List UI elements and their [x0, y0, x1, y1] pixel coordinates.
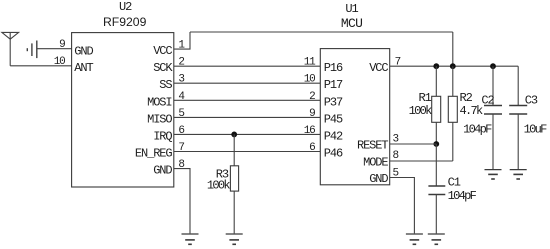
svg-text:10uF: 10uF	[524, 123, 548, 137]
svg-text:P37: P37	[324, 95, 343, 109]
wire U2 GND pin8 to ground	[174, 169, 190, 234]
wire top rail VCC to MCU area	[190, 31, 453, 33]
svg-text:U2: U2	[119, 0, 132, 14]
svg-text:U1: U1	[345, 2, 358, 16]
node junction VCC/C2	[490, 63, 496, 69]
antenna	[2, 32, 19, 65]
svg-text:RESET: RESET	[357, 139, 388, 153]
wire antenna to U2 ANT pin 10	[10, 65, 71, 67]
svg-text:7: 7	[178, 142, 184, 154]
node junction VCC/R1	[433, 63, 439, 69]
svg-text:10: 10	[304, 74, 315, 86]
svg-text:MODE: MODE	[363, 156, 388, 170]
node junction on IRQ line	[231, 132, 237, 138]
svg-text:11: 11	[304, 57, 316, 69]
svg-text:100k: 100k	[409, 104, 433, 118]
node junction RESET/R1/C1	[433, 141, 439, 147]
svg-text:ANT: ANT	[74, 61, 93, 75]
wire VCC net from U1 pin 7	[390, 65, 519, 67]
svg-text:MISO: MISO	[147, 112, 172, 126]
wire MODE pin8 to R2	[390, 160, 453, 162]
svg-text:9: 9	[309, 108, 315, 120]
svg-text:IRQ: IRQ	[153, 129, 172, 143]
svg-text:EN_REG: EN_REG	[135, 147, 173, 161]
wire C3 to ground	[517, 114, 519, 169]
svg-text:R1: R1	[418, 91, 431, 105]
capacitor C2	[484, 106, 502, 115]
IC U2 box	[72, 33, 174, 187]
wire EN_REG to P46	[174, 151, 320, 153]
svg-text:C1: C1	[448, 176, 461, 190]
svg-text:SCK: SCK	[153, 61, 173, 75]
svg-text:MCU: MCU	[341, 16, 362, 31]
svg-text:C2: C2	[481, 94, 494, 108]
wire cell to U2 GND pin 9	[37, 48, 72, 50]
svg-text:SS: SS	[159, 78, 172, 92]
svg-text:104pF: 104pF	[448, 189, 477, 203]
svg-text:P16: P16	[324, 61, 343, 75]
wire U2 VCC pin1 stub up to top rail	[174, 32, 190, 49]
ground under C3	[510, 170, 527, 179]
ground under U1 pin5	[406, 234, 423, 244]
svg-text:P42: P42	[324, 129, 343, 143]
svg-text:16: 16	[304, 125, 315, 137]
svg-text:8: 8	[178, 159, 184, 171]
svg-text:6: 6	[309, 142, 315, 154]
resistor R2	[448, 96, 457, 122]
ground under R3	[226, 234, 243, 244]
wire R1 to RESET node	[435, 122, 437, 144]
resistor R3	[230, 166, 238, 191]
wire VCC down to C2	[492, 66, 494, 105]
svg-text:GND: GND	[369, 172, 388, 186]
IC U1 box	[320, 49, 389, 185]
wire rail down to VCC net	[452, 32, 454, 66]
svg-text:R2: R2	[460, 91, 473, 105]
svg-text:6: 6	[178, 125, 184, 137]
svg-text:8: 8	[393, 150, 399, 162]
ground under C2	[485, 170, 502, 179]
capacitor/cell symbol at U2 GND pin 9	[27, 41, 37, 59]
wire VCC down to R1	[435, 66, 437, 96]
wire junction down to R3	[233, 134, 235, 165]
wire GND pin5 of U1 to ground	[390, 178, 415, 234]
svg-text:104pF: 104pF	[463, 123, 492, 137]
svg-text:VCC: VCC	[153, 44, 172, 58]
svg-text:VCC: VCC	[369, 61, 388, 75]
svg-text:5: 5	[178, 108, 184, 120]
wire SS to P17	[174, 82, 320, 84]
svg-text:100k: 100k	[207, 178, 231, 192]
svg-text:MOSI: MOSI	[147, 95, 171, 109]
wire C2 to ground	[492, 114, 494, 169]
svg-text:GND: GND	[74, 45, 93, 59]
wire R3 to ground	[233, 191, 235, 233]
svg-text:GND: GND	[153, 164, 172, 178]
svg-text:10: 10	[54, 56, 65, 68]
ground under C1	[428, 234, 445, 244]
wire VCC down to R2	[452, 66, 454, 96]
svg-text:2: 2	[309, 91, 315, 103]
resistor R1	[432, 96, 441, 122]
svg-text:P45: P45	[324, 112, 343, 126]
capacitor C1	[428, 186, 445, 195]
svg-text:9: 9	[59, 39, 65, 51]
svg-text:4.7k: 4.7k	[460, 104, 484, 118]
wire MOSI to P37	[174, 99, 320, 101]
svg-text:P17: P17	[324, 78, 343, 92]
wire RESET node down to C1	[435, 144, 437, 186]
svg-text:P46: P46	[324, 147, 343, 161]
wire VCC corner down to C3	[517, 66, 519, 105]
wire MISO to P45	[174, 116, 320, 118]
svg-text:RF9209: RF9209	[103, 15, 147, 29]
capacitor C3	[509, 106, 527, 115]
wire SCK to P16	[174, 65, 320, 67]
svg-text:2: 2	[178, 57, 184, 69]
wire IRQ to P42	[174, 133, 320, 135]
node junction VCC/R2/rail	[450, 63, 456, 69]
svg-text:3: 3	[178, 74, 184, 86]
ground under U2 pin8	[182, 234, 199, 244]
wire R2 down to MODE wire	[452, 122, 454, 161]
svg-text:C3: C3	[525, 94, 538, 108]
wire C1 to ground	[435, 195, 437, 234]
wire RESET pin3 to node	[390, 143, 437, 145]
